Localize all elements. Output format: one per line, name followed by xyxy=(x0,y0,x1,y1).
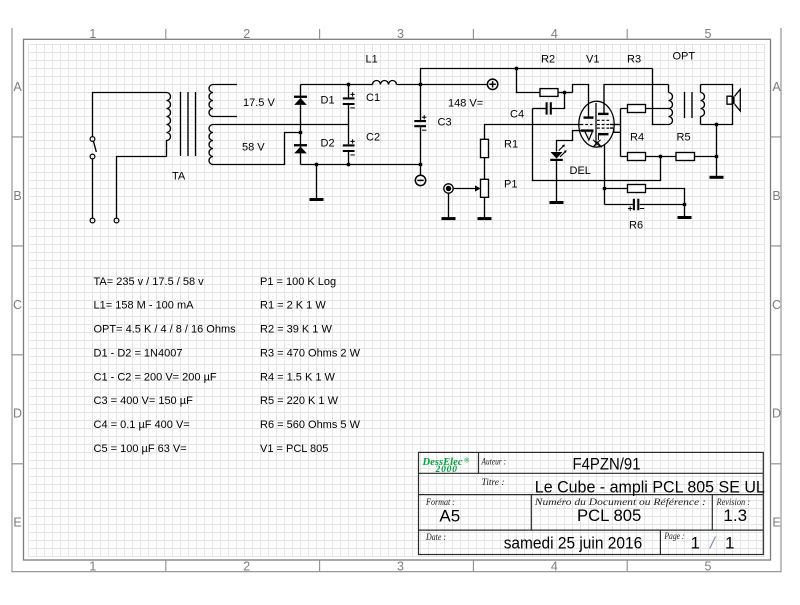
svg-text:P1: P1 xyxy=(504,179,517,191)
svg-text:A5: A5 xyxy=(439,506,460,525)
svg-text:A: A xyxy=(13,80,22,94)
svg-text:C5 = 100 µF 63 V=: C5 = 100 µF 63 V= xyxy=(94,443,187,455)
svg-text:C: C xyxy=(772,298,781,312)
svg-text:2: 2 xyxy=(243,27,250,41)
svg-text:R1: R1 xyxy=(504,139,518,151)
svg-text:P1 = 100 K Log: P1 = 100 K Log xyxy=(260,276,336,288)
svg-text:Le Cube - ampli PCL 805 SE UL: Le Cube - ampli PCL 805 SE UL xyxy=(535,477,765,496)
svg-text:TA= 235 v / 17.5 / 58 v: TA= 235 v / 17.5 / 58 v xyxy=(94,276,205,288)
svg-text:5: 5 xyxy=(705,560,712,574)
svg-text:1: 1 xyxy=(89,560,96,574)
svg-text:C2: C2 xyxy=(366,132,380,144)
svg-text:1.3: 1.3 xyxy=(723,506,747,525)
svg-text:58 V: 58 V xyxy=(242,142,265,154)
svg-text:C3: C3 xyxy=(438,117,452,129)
svg-text:E: E xyxy=(772,516,780,530)
svg-text:OPT: OPT xyxy=(673,51,696,63)
svg-text:C: C xyxy=(13,298,22,312)
svg-text:C1: C1 xyxy=(366,92,380,104)
svg-text:L1= 158 M - 100 mA: L1= 158 M - 100 mA xyxy=(94,300,195,312)
svg-text:A: A xyxy=(772,80,781,94)
svg-text:R5 = 220 K 1 W: R5 = 220 K 1 W xyxy=(260,395,339,407)
svg-text:L1: L1 xyxy=(366,54,378,66)
svg-text:C3 = 400 V= 150 µF: C3 = 400 V= 150 µF xyxy=(94,395,194,407)
svg-text:R3 = 470 Ohms 2 W: R3 = 470 Ohms 2 W xyxy=(260,347,361,359)
svg-text:OPT= 4.5 K / 4 / 8 / 16 Ohms: OPT= 4.5 K / 4 / 8 / 16 Ohms xyxy=(94,324,237,336)
svg-text:R6: R6 xyxy=(629,220,643,232)
svg-text:R2 = 39 K 1 W: R2 = 39 K 1 W xyxy=(260,324,332,336)
svg-text:F4PZN/91: F4PZN/91 xyxy=(573,454,641,473)
svg-text:3: 3 xyxy=(397,27,404,41)
svg-text:D2: D2 xyxy=(321,138,335,150)
svg-text:R3: R3 xyxy=(627,54,641,66)
svg-text:R4: R4 xyxy=(630,132,644,144)
svg-text:2000: 2000 xyxy=(435,465,458,475)
svg-text:R1 = 2 K 1 W: R1 = 2 K 1 W xyxy=(260,300,326,312)
svg-text:5: 5 xyxy=(705,27,712,41)
svg-text:R5: R5 xyxy=(677,132,691,144)
svg-text:D1 - D2 = 1N4007: D1 - D2 = 1N4007 xyxy=(94,347,183,359)
svg-text:R4 = 1.5 K 1 W: R4 = 1.5 K 1 W xyxy=(260,371,336,383)
svg-text:V1: V1 xyxy=(586,54,599,66)
svg-text:D: D xyxy=(13,407,22,421)
svg-text:1: 1 xyxy=(725,533,734,552)
svg-text:DEL: DEL xyxy=(570,165,591,177)
svg-text:®: ® xyxy=(464,457,470,465)
svg-text:C4: C4 xyxy=(510,109,524,121)
svg-text:D1: D1 xyxy=(321,95,335,107)
svg-text:4: 4 xyxy=(551,27,558,41)
svg-text:E: E xyxy=(13,516,21,530)
svg-text:samedi 25 juin 2016: samedi 25 juin 2016 xyxy=(504,533,643,552)
svg-text:R2: R2 xyxy=(541,54,555,66)
svg-text:V1 = PCL 805: V1 = PCL 805 xyxy=(260,443,328,455)
svg-text:B: B xyxy=(13,189,21,203)
svg-text:17.5 V: 17.5 V xyxy=(243,97,275,109)
svg-text:B: B xyxy=(772,189,780,203)
svg-text:C1 - C2 = 200 V= 200 µF: C1 - C2 = 200 V= 200 µF xyxy=(94,371,217,383)
svg-text:4: 4 xyxy=(551,560,558,574)
svg-text:3: 3 xyxy=(397,560,404,574)
svg-text:2: 2 xyxy=(243,560,250,574)
svg-text:Date :: Date : xyxy=(425,533,446,543)
svg-text:TA: TA xyxy=(172,171,186,183)
svg-text:Titre :: Titre : xyxy=(482,478,505,488)
svg-text:R6 = 560 Ohms 5 W: R6 = 560 Ohms 5 W xyxy=(260,419,361,431)
svg-text:1: 1 xyxy=(89,27,96,41)
svg-text:C4 = 0.1 µF 400 V=: C4 = 0.1 µF 400 V= xyxy=(94,419,190,431)
svg-text:Page :: Page : xyxy=(664,532,685,542)
svg-text:PCL 805: PCL 805 xyxy=(577,506,641,525)
svg-text:D: D xyxy=(772,407,781,421)
svg-text:1: 1 xyxy=(691,533,700,552)
svg-text:Auteur :: Auteur : xyxy=(481,458,506,468)
svg-text:148 V=: 148 V= xyxy=(448,98,483,110)
